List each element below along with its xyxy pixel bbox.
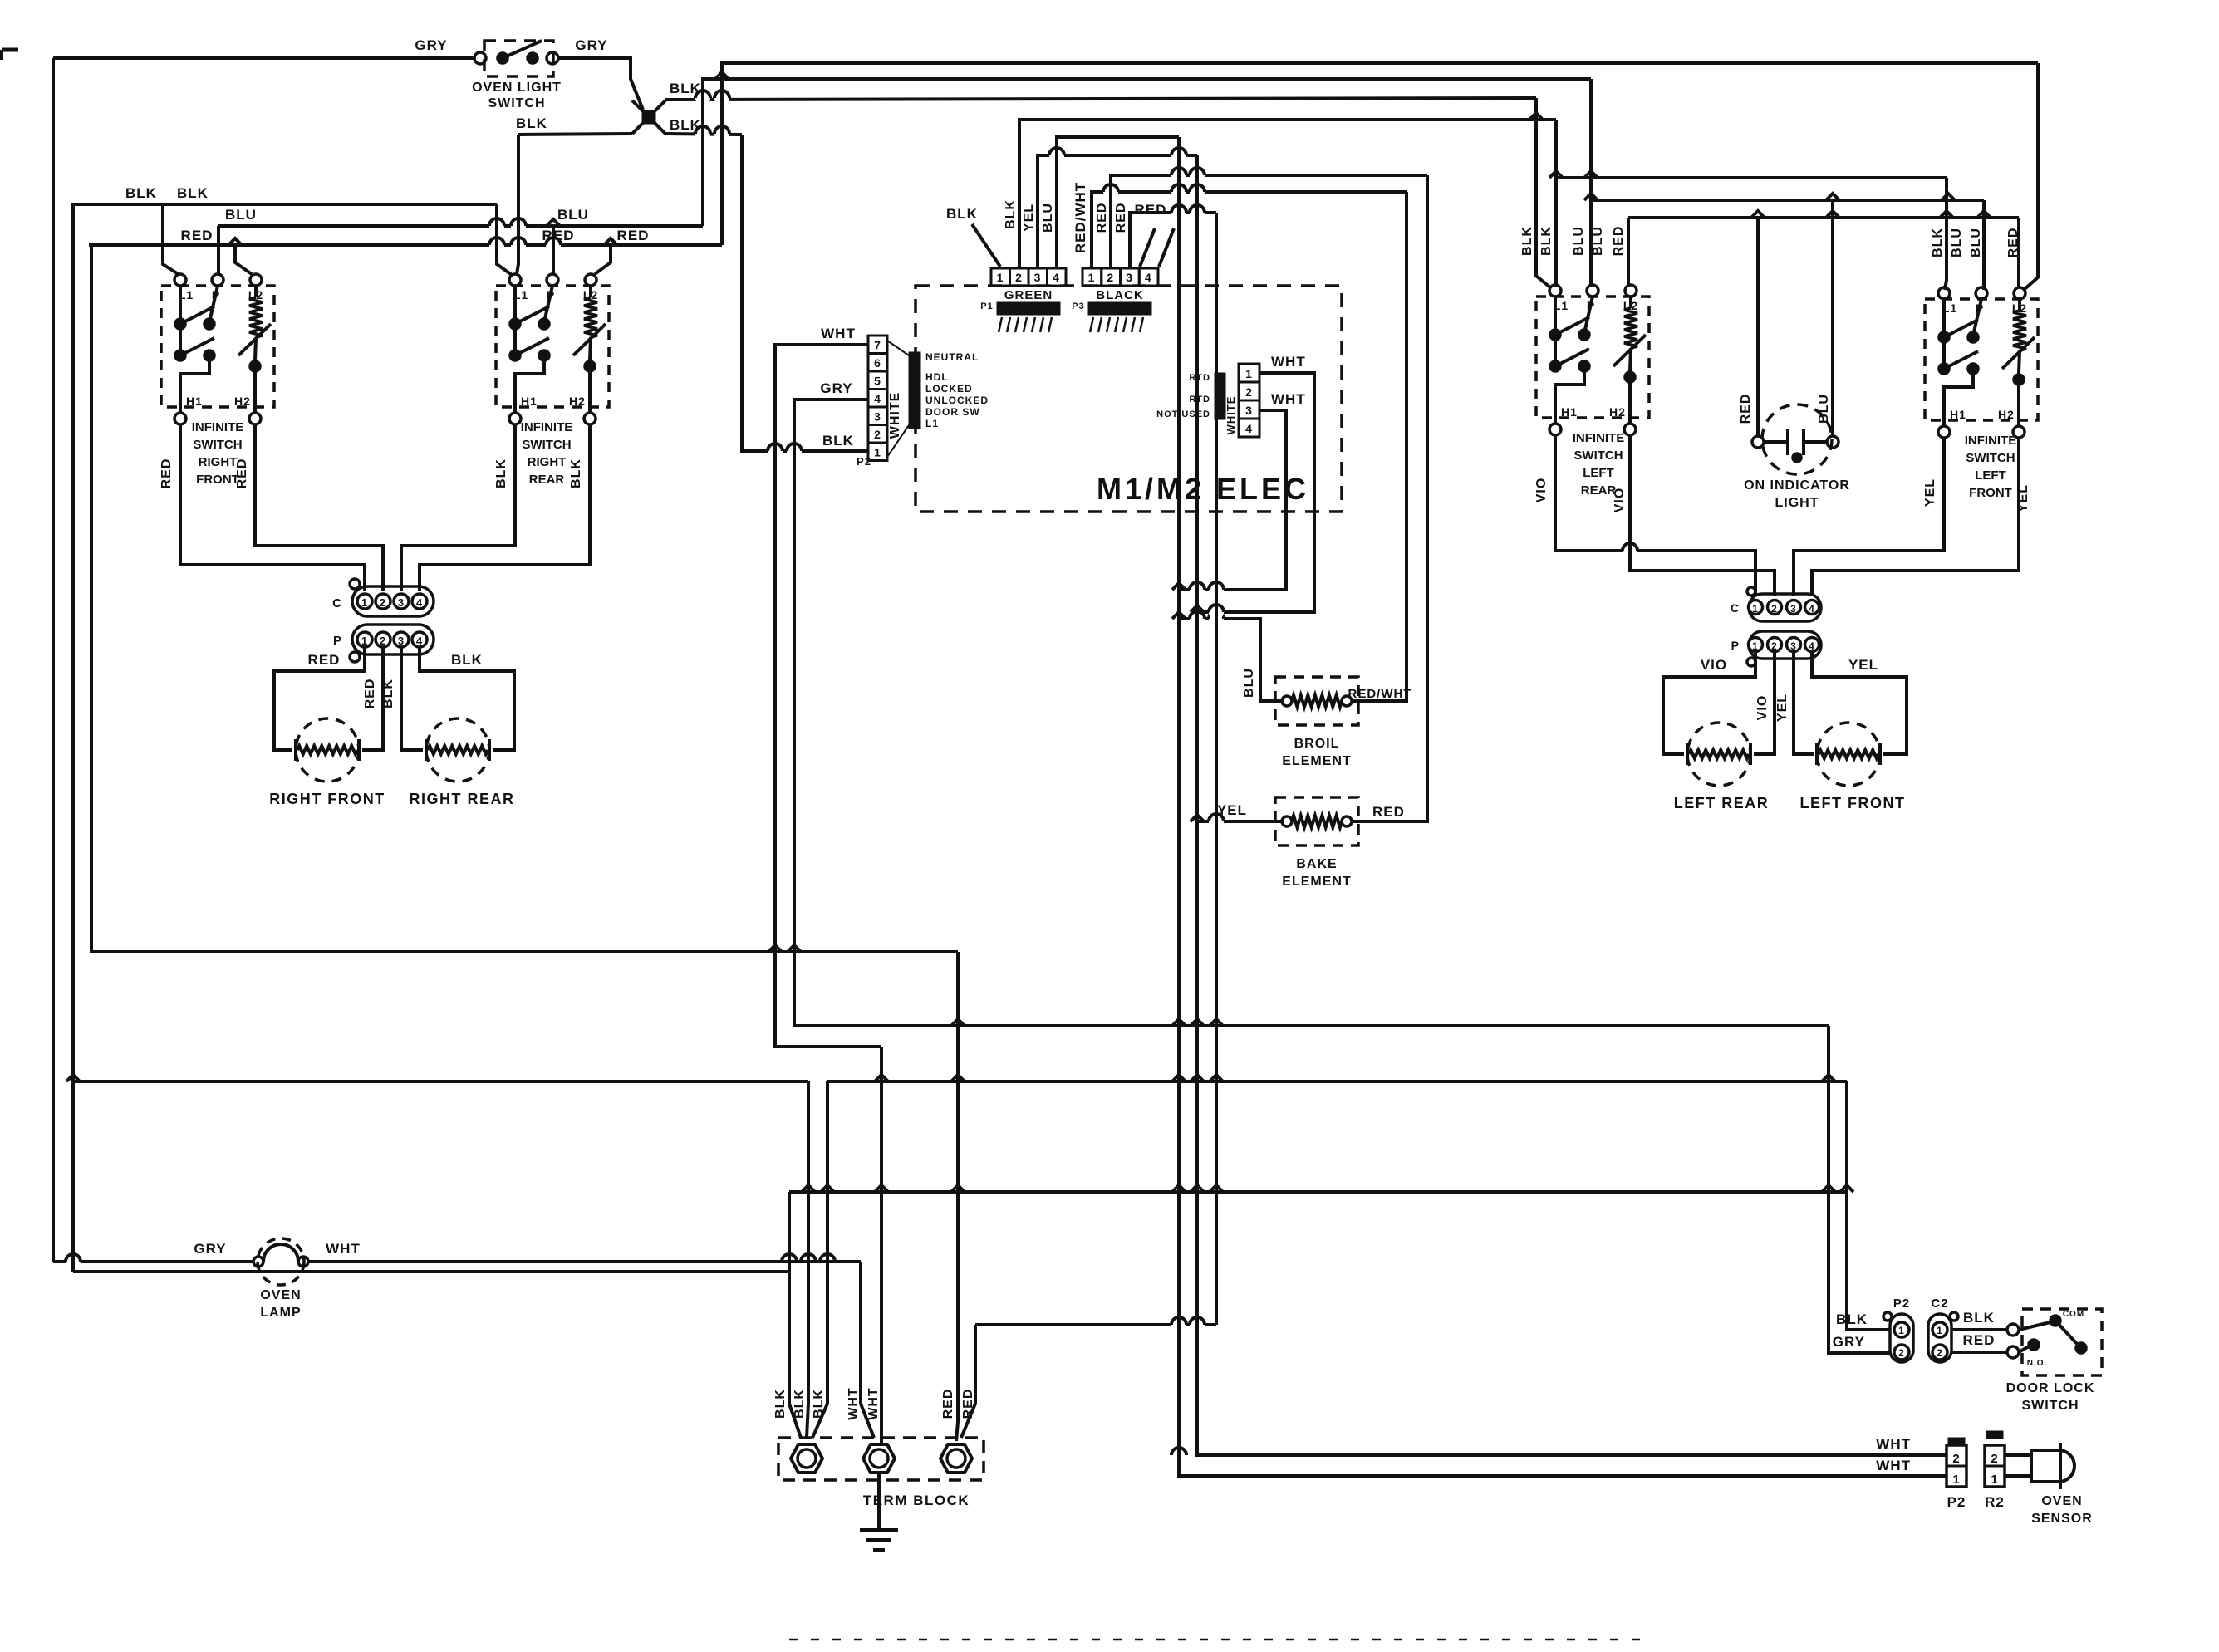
svg-text:2: 2 <box>1898 1347 1905 1359</box>
wire R2 to sensor <box>2005 1453 2031 1457</box>
wire BLU bus <box>218 224 703 228</box>
connector C4 <box>352 586 434 616</box>
svg-text:4: 4 <box>874 392 881 405</box>
svg-text:4: 4 <box>416 596 423 609</box>
svg-text:BLK: BLK <box>516 115 547 131</box>
wire RED left vertical <box>91 245 958 952</box>
svg-text:H2: H2 <box>569 395 586 408</box>
wire BLU P1 pin4 <box>1057 137 1179 268</box>
svg-text:BLU: BLU <box>1969 228 1983 257</box>
svg-text:2: 2 <box>1771 640 1778 652</box>
wire BLK second into left-rear L1 <box>1534 98 1538 276</box>
wire YEL P1 pin3 <box>1038 155 1197 268</box>
svg-text:OVEN: OVEN <box>260 1288 301 1302</box>
svg-text:3: 3 <box>1126 271 1133 284</box>
wire RED link <box>1628 216 2019 219</box>
svg-text:BLK: BLK <box>177 185 209 201</box>
svg-text:GRY: GRY <box>820 380 852 396</box>
svg-text:BLK: BLK <box>381 679 395 708</box>
svg-text:REAR: REAR <box>529 473 565 487</box>
svg-text:BLK: BLK <box>125 185 157 201</box>
svg-text:P1: P1 <box>980 301 993 311</box>
wire artifact top-left <box>2 48 18 52</box>
svg-text:ON INDICATOR: ON INDICATOR <box>1744 478 1850 493</box>
svg-text:WHT: WHT <box>1876 1458 1911 1473</box>
connector C2 door lock <box>1928 1314 1951 1362</box>
term block <box>778 1438 984 1480</box>
connector WHITE 4-pin right side <box>1239 364 1259 382</box>
wire WHT from oven lamp <box>308 1260 861 1263</box>
wire BLK sw2 H2 to C4 pin4 <box>420 424 590 591</box>
svg-text:WHT: WHT <box>866 1387 881 1419</box>
infinite switch INFINITE SWITCH LEFT FRONT <box>1925 299 2038 420</box>
svg-text:BLK: BLK <box>1963 1310 1995 1326</box>
bake element <box>1197 820 1284 823</box>
connector P1 GREEN 4-pin <box>991 268 1010 286</box>
wire YEL left-front H1 to C pin3 <box>1794 437 1944 596</box>
svg-text:BLU: BLU <box>1591 226 1605 256</box>
wire WHT from P2 pin7 <box>775 345 881 1047</box>
svg-text:P: P <box>333 634 342 648</box>
svg-text:1: 1 <box>1245 367 1253 380</box>
svg-text:L1: L1 <box>925 418 939 429</box>
svg-text:VIO: VIO <box>1701 657 1727 673</box>
wire YEL P pin3 <box>1794 652 1814 754</box>
wire BLU to indicator light <box>1831 200 1834 435</box>
svg-text:BLU: BLU <box>1817 394 1831 424</box>
wire RED C2 to door lock switch <box>1951 1351 2007 1354</box>
svg-text:DOOR SW: DOOR SW <box>925 406 980 418</box>
oven light switch <box>484 41 553 76</box>
svg-text:2: 2 <box>1991 1452 1998 1466</box>
svg-text:INFINITE: INFINITE <box>1965 434 2017 448</box>
svg-text:1: 1 <box>361 596 368 609</box>
right front surface element <box>296 718 359 782</box>
connector C right <box>1749 594 1821 621</box>
svg-text:2: 2 <box>1245 385 1253 399</box>
wire RED to term block 3b <box>961 1325 975 1438</box>
svg-text:BLU: BLU <box>225 207 257 223</box>
wire RED P4 pin1 to right front element <box>274 647 365 750</box>
wire BLK drop to term block middle <box>807 1081 808 1438</box>
wire BLK left vertical <box>71 204 75 1272</box>
wire BLK X left arm <box>518 134 632 135</box>
svg-text:BLU: BLU <box>557 207 589 223</box>
wire BLK P4 pin4 to right rear element <box>420 647 514 750</box>
wire GRY to oven light switch <box>53 56 474 60</box>
svg-text:RED: RED <box>2006 228 2020 258</box>
svg-text:C: C <box>1731 601 1740 615</box>
svg-text:SWITCH: SWITCH <box>488 96 545 110</box>
wire RED riser and top run <box>722 63 2038 245</box>
connector P4 <box>352 625 434 654</box>
wire BLK drop to term block left <box>789 1192 801 1438</box>
wire RED lower link <box>975 1323 1216 1326</box>
svg-text:P2: P2 <box>857 455 871 468</box>
svg-text:1: 1 <box>1088 271 1096 284</box>
right rear surface element <box>426 718 489 782</box>
svg-text:BLU: BLU <box>1950 228 1964 257</box>
svg-text:COM: COM <box>2063 1310 2084 1319</box>
wire RED to sw1 L2 <box>235 245 252 274</box>
wire BLK bus left <box>71 203 497 206</box>
connector P3 BLACK 4-pin <box>1082 268 1102 286</box>
svg-text:GRY: GRY <box>575 37 607 53</box>
connector R2 oven sensor <box>1986 1431 2003 1439</box>
svg-text:3: 3 <box>1245 404 1253 417</box>
wire RED sw1 H1 to C4 pin1 <box>180 424 365 591</box>
svg-text:INFINITE: INFINITE <box>192 420 244 434</box>
wire BLU down to left-rear P <box>1589 79 1593 286</box>
svg-text:P3: P3 <box>1072 301 1084 311</box>
wire RED to sw2 L2 <box>595 245 611 274</box>
wire BLU link to left-front P <box>1591 199 1984 202</box>
wire BLU to sw1 P <box>217 226 220 274</box>
svg-text:FRONT: FRONT <box>196 473 239 487</box>
svg-text:H1: H1 <box>521 395 538 408</box>
svg-text:WHT: WHT <box>326 1241 361 1257</box>
svg-text:3: 3 <box>398 635 405 647</box>
svg-text:4: 4 <box>1145 271 1152 284</box>
infinite switch INFINITE SWITCH RIGHT REAR <box>496 286 609 407</box>
svg-text:WHITE: WHITE <box>888 392 902 439</box>
svg-text:1: 1 <box>1898 1325 1905 1336</box>
svg-text:WHT: WHT <box>821 326 856 341</box>
wire RED sw1 H2 to C4 pin2 <box>255 424 383 591</box>
svg-text:1: 1 <box>1752 603 1759 615</box>
svg-text:BLK: BLK <box>1520 226 1534 256</box>
svg-text:RED: RED <box>308 652 341 668</box>
oven lamp <box>53 1260 253 1263</box>
wire GRY from switch down to X junction <box>558 58 643 110</box>
svg-text:N.O.: N.O. <box>2027 1359 2048 1368</box>
svg-text:GRY: GRY <box>415 37 447 53</box>
wire BLK to M1/M2 P2 pin1 <box>742 135 868 451</box>
wire RED/WHT P3 pin1 to broil <box>1092 192 1407 268</box>
svg-text:RIGHT FRONT: RIGHT FRONT <box>269 791 385 807</box>
wire BLU/WHT long vertical to oven sensor <box>1179 137 1947 1476</box>
wire BLK sw2 H1 to C4 pin3 <box>401 424 515 591</box>
wire YEL/WHT long vertical to oven sensor <box>1197 155 1947 1455</box>
wire RED vertical to bottom <box>1215 213 1218 1325</box>
svg-text:RIGHT REAR: RIGHT REAR <box>410 791 515 807</box>
svg-text:YEL: YEL <box>1923 478 1937 507</box>
wire BLU to sw2 P <box>552 226 555 274</box>
svg-text:RTD: RTD <box>1189 373 1210 383</box>
svg-text:RED: RED <box>1739 394 1753 424</box>
svg-text:7: 7 <box>874 339 881 352</box>
wire BLU riser and top run <box>703 79 1591 226</box>
svg-text:H2: H2 <box>1609 405 1626 419</box>
svg-text:1: 1 <box>1752 640 1759 652</box>
svg-text:GREEN: GREEN <box>1004 288 1053 302</box>
svg-text:BAKE: BAKE <box>1296 857 1337 871</box>
svg-text:RED/WHT: RED/WHT <box>1073 182 1088 253</box>
svg-text:REAR: REAR <box>1581 483 1617 498</box>
svg-text:DOOR LOCK: DOOR LOCK <box>2006 1381 2095 1395</box>
svg-text:GRY: GRY <box>194 1241 226 1257</box>
svg-text:2: 2 <box>1771 603 1778 615</box>
wire BLK bus lower <box>789 1190 1847 1194</box>
svg-text:H2: H2 <box>234 395 251 408</box>
svg-text:3: 3 <box>1034 271 1042 284</box>
node X junction BLK <box>632 100 665 134</box>
svg-text:BLK: BLK <box>793 1389 807 1419</box>
svg-text:2: 2 <box>1952 1452 1960 1466</box>
wire VIO left-rear H1 to C pin1 <box>1555 434 1755 596</box>
wire WHT sensor 1 <box>1197 373 1314 612</box>
svg-text:BROIL: BROIL <box>1294 737 1340 751</box>
wire BLK P4 pin3 <box>401 647 423 750</box>
wire RED callout to P3 pin4 <box>1140 228 1155 267</box>
svg-text:BLK: BLK <box>451 652 483 668</box>
svg-text:INFINITE: INFINITE <box>521 420 573 434</box>
wire RED P3 pin2 to bake <box>1111 175 1427 268</box>
svg-text:RED: RED <box>617 228 650 243</box>
svg-text:RED: RED <box>235 458 249 489</box>
svg-text:SWITCH: SWITCH <box>522 438 571 452</box>
svg-text:RED: RED <box>941 1389 955 1419</box>
svg-text:BLK: BLK <box>1836 1311 1868 1327</box>
wire left border GRY/lamp feed <box>52 58 55 1262</box>
svg-text:RED: RED <box>160 458 174 489</box>
svg-text:2: 2 <box>1937 1347 1943 1359</box>
wire RED/WHT broil right <box>1352 192 1407 701</box>
wire BLK link left-rear L1 to left-front L1 <box>1556 176 1947 179</box>
svg-text:LEFT REAR: LEFT REAR <box>1674 795 1770 811</box>
wire VIO P pin1 to left rear element <box>1663 652 1755 754</box>
svg-text:RED: RED <box>1095 203 1109 233</box>
svg-text:H1: H1 <box>1561 405 1578 419</box>
svg-text:ELEMENT: ELEMENT <box>1282 754 1351 768</box>
svg-text:2: 2 <box>874 428 881 441</box>
svg-text:RED: RED <box>961 1389 975 1419</box>
artifact bottom dotted line <box>789 1639 1653 1641</box>
svg-text:VIO: VIO <box>1755 695 1770 721</box>
connector P2 door lock <box>1890 1314 1913 1362</box>
wire RED down to left-front L2 <box>2017 218 2020 287</box>
wire BLK B2 <box>665 134 742 135</box>
svg-text:OVEN: OVEN <box>2041 1494 2082 1508</box>
svg-text:4: 4 <box>1809 640 1815 652</box>
svg-text:4: 4 <box>1053 271 1060 284</box>
svg-text:1: 1 <box>361 635 368 647</box>
svg-text:BLK: BLK <box>822 433 854 449</box>
svg-text:YEL: YEL <box>1217 802 1247 818</box>
on indicator light <box>1762 404 1832 474</box>
svg-text:FRONT: FRONT <box>1969 486 2012 500</box>
svg-text:VIO: VIO <box>1534 478 1549 503</box>
svg-text:1: 1 <box>1952 1473 1960 1487</box>
svg-text:5: 5 <box>874 375 881 388</box>
svg-text:BLU: BLU <box>1041 203 1055 233</box>
svg-text:3: 3 <box>874 410 881 424</box>
svg-text:2: 2 <box>1107 271 1114 284</box>
svg-text:3: 3 <box>398 596 405 609</box>
wire WHT sensor 2 <box>1179 410 1286 590</box>
connector P2 oven sensor <box>1948 1438 1965 1445</box>
wire BLK P1 pin2 to left-rear L1 <box>1019 120 1556 268</box>
svg-text:OVEN LIGHT: OVEN LIGHT <box>472 81 562 95</box>
svg-text:GRY: GRY <box>1833 1334 1865 1350</box>
svg-text:4: 4 <box>1809 603 1815 615</box>
svg-text:YEL: YEL <box>2016 484 2030 512</box>
svg-text:RED: RED <box>1963 1332 1996 1348</box>
svg-text:LAMP: LAMP <box>260 1306 301 1320</box>
oven sensor bulb <box>2031 1450 2074 1482</box>
wire BLK from X to sw2 L1 <box>517 135 518 274</box>
svg-text:WHT: WHT <box>1271 391 1306 407</box>
svg-text:RIGHT: RIGHT <box>528 455 567 469</box>
svg-text:BLK: BLK <box>1931 228 1945 257</box>
svg-text:BLK: BLK <box>494 458 508 488</box>
svg-text:RED: RED <box>1135 202 1167 218</box>
svg-text:H1: H1 <box>186 395 203 408</box>
svg-text:LIGHT: LIGHT <box>1775 496 1819 510</box>
door lock switch <box>2022 1309 2102 1375</box>
svg-text:3: 3 <box>1790 603 1797 615</box>
svg-text:LOCKED: LOCKED <box>925 383 973 395</box>
svg-text:UNLOCKED: UNLOCKED <box>925 395 989 406</box>
wire R2 to sensor 2 <box>2005 1474 2031 1478</box>
left rear surface element <box>1687 723 1750 786</box>
svg-text:BLACK: BLACK <box>1096 288 1144 302</box>
svg-text:SWITCH: SWITCH <box>2021 1399 2079 1413</box>
wire WHT to term block 2 <box>861 1262 874 1438</box>
svg-text:NEUTRAL: NEUTRAL <box>925 351 979 363</box>
svg-text:SWITCH: SWITCH <box>1966 451 2015 465</box>
wire BLK lower link to term block 1 <box>73 1270 789 1273</box>
wire VIO left-rear H2 to C pin2 <box>1630 434 1775 596</box>
wire RED down to term block 3 <box>956 952 958 1441</box>
svg-text:1: 1 <box>1937 1325 1943 1336</box>
svg-text:LEFT: LEFT <box>1583 466 1614 480</box>
svg-text:SENSOR: SENSOR <box>2031 1512 2093 1526</box>
svg-text:2: 2 <box>380 596 386 609</box>
svg-text:RED: RED <box>1372 804 1405 820</box>
svg-text:1: 1 <box>874 446 881 459</box>
svg-text:BLK: BLK <box>812 1389 826 1419</box>
ground symbol <box>877 1473 881 1530</box>
svg-text:SWITCH: SWITCH <box>1573 449 1623 463</box>
svg-text:4: 4 <box>416 635 423 647</box>
left front surface element <box>1817 723 1880 786</box>
svg-text:C2: C2 <box>1931 1297 1948 1311</box>
svg-text:RED: RED <box>1612 226 1626 257</box>
connector P2 WHITE 7-pin <box>868 336 887 354</box>
svg-text:HDL: HDL <box>925 371 949 383</box>
svg-text:RED: RED <box>1114 203 1128 233</box>
svg-text:M1/M2 ELEC: M1/M2 ELEC <box>1097 472 1309 506</box>
svg-text:INFINITE: INFINITE <box>1573 431 1625 445</box>
wire BLK bus left segment <box>73 1080 808 1083</box>
wire GRY from P2 pin4 <box>794 400 1829 1026</box>
svg-text:WHT: WHT <box>847 1387 861 1419</box>
wire BLK callout to P1 pin1 <box>972 224 1000 267</box>
svg-text:2: 2 <box>380 635 386 647</box>
svg-text:1: 1 <box>997 271 1004 284</box>
svg-text:3: 3 <box>1790 640 1797 652</box>
svg-text:SWITCH: SWITCH <box>193 438 242 452</box>
svg-text:P2: P2 <box>1893 1297 1910 1311</box>
broil element <box>1179 619 1284 701</box>
wire RED P4 pin2 <box>362 647 383 750</box>
wire BLK B1 to left-rear switch <box>665 98 1536 100</box>
svg-text:P: P <box>1731 639 1740 652</box>
wire RED P3 pin3 <box>1130 213 1216 268</box>
svg-text:2: 2 <box>1015 271 1023 284</box>
wire RED down to left-front L2 <box>2024 63 2038 290</box>
svg-text:NOT USED: NOT USED <box>1156 409 1210 419</box>
wire WHT down to term block <box>880 1047 883 1444</box>
svg-text:4: 4 <box>1245 422 1253 435</box>
wire YEL P pin4 to left front element <box>1812 652 1907 754</box>
svg-text:RED: RED <box>181 228 214 243</box>
svg-text:1: 1 <box>1991 1473 1998 1487</box>
svg-text:BLK: BLK <box>1539 226 1554 256</box>
svg-text:RTD: RTD <box>1189 395 1210 404</box>
wire BLK branch to sw1 L1 <box>163 204 179 275</box>
svg-text:WHT: WHT <box>1876 1436 1911 1452</box>
M1/M2 ELEC control dashed box <box>916 286 1342 512</box>
wire BLK C2 to door lock switch <box>1951 1328 2007 1331</box>
svg-text:BLK: BLK <box>773 1389 788 1419</box>
wire RED bus <box>89 243 722 247</box>
wire BLK down to door lock P2 <box>1847 1081 1890 1330</box>
svg-text:P2: P2 <box>1947 1494 1966 1510</box>
svg-text:H2: H2 <box>1998 408 2015 421</box>
svg-text:RED/WHT: RED/WHT <box>1348 687 1412 701</box>
svg-text:VIO: VIO <box>1613 488 1627 513</box>
infinite switch INFINITE SWITCH RIGHT FRONT <box>161 286 274 407</box>
wire BLK branch to sw2 L1 <box>497 204 512 275</box>
wire RED to indicator light <box>1756 218 1760 435</box>
wire YEL left-front H2 to C pin4 <box>1812 437 2019 596</box>
svg-text:C: C <box>332 596 342 610</box>
svg-text:H1: H1 <box>1950 408 1966 421</box>
wire BLK drop to term block right <box>812 1081 827 1438</box>
svg-text:R2: R2 <box>1985 1494 2005 1510</box>
svg-text:6: 6 <box>874 356 881 370</box>
svg-text:YEL: YEL <box>1775 694 1789 722</box>
svg-text:BLU: BLU <box>1242 668 1256 698</box>
svg-text:BLK: BLK <box>569 458 583 488</box>
svg-text:BLK: BLK <box>946 206 978 222</box>
svg-text:WHT: WHT <box>1271 354 1306 370</box>
svg-text:BLU: BLU <box>1572 226 1586 256</box>
svg-text:YEL: YEL <box>1022 203 1036 232</box>
wire GRY to door lock P2 <box>1829 1026 1890 1353</box>
svg-text:LEFT: LEFT <box>1975 468 2006 483</box>
svg-text:ELEMENT: ELEMENT <box>1282 875 1351 889</box>
wire RED bake right <box>1352 175 1427 821</box>
svg-text:RIGHT: RIGHT <box>199 455 238 469</box>
svg-text:WHITE: WHITE <box>1225 396 1237 435</box>
wire VIO P pin2 <box>1754 652 1775 754</box>
svg-text:LEFT FRONT: LEFT FRONT <box>1800 795 1906 811</box>
connector P right <box>1749 631 1821 659</box>
infinite switch INFINITE SWITCH LEFT REAR <box>1536 297 1649 418</box>
svg-text:RED: RED <box>363 679 377 709</box>
wire BLK long bus right segment <box>827 1080 1847 1083</box>
svg-text:YEL: YEL <box>1848 657 1878 673</box>
svg-text:BLK: BLK <box>1004 199 1018 229</box>
